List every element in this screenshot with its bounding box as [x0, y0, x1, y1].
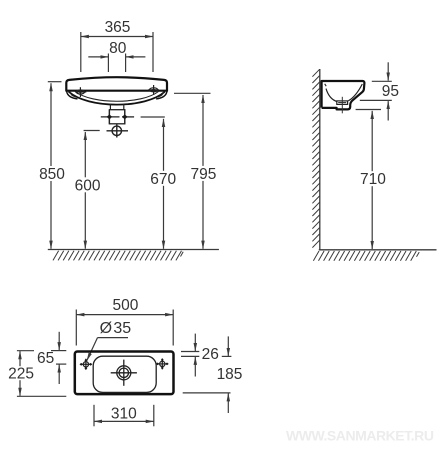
washbasin side bowl back curve [326, 89, 337, 102]
floor line front view [48, 249, 219, 251]
extension dash 65 bottom [56, 363, 66, 365]
svg-text:795: 795 [190, 166, 216, 183]
svg-text:500: 500 [112, 297, 138, 314]
mounting hole cross right [122, 110, 134, 124]
extension dash 185 bottom [183, 392, 231, 394]
dimension text 795 [189, 166, 217, 181]
dimension text 850 [38, 166, 66, 181]
dimension line 710 [371, 111, 373, 249]
svg-text:95: 95 [382, 83, 399, 100]
extension dash 670 [141, 116, 165, 118]
extension line 80 right [125, 54, 127, 73]
tap hole symbol front right [148, 85, 159, 95]
mounting plate front view [109, 110, 124, 124]
tap hole symbol front left [75, 87, 86, 97]
dimension arrow 26 bottom [194, 357, 196, 377]
dimension arrow 185 bottom [227, 393, 229, 413]
drain flange side view [337, 101, 348, 105]
washbasin side bowl front curve [348, 84, 362, 101]
drain symbol plan view [111, 360, 137, 386]
dimension arrow 95 top [387, 62, 389, 80]
dimension text 710 [359, 171, 387, 186]
svg-text:80: 80 [109, 40, 127, 57]
dimension line 310 [94, 420, 154, 422]
extension dash 26 top [181, 351, 199, 353]
tap hole plan view right [157, 359, 168, 370]
washbasin front bowl outer curve [69, 92, 166, 105]
extension line 225 bottom [17, 395, 66, 397]
svg-text:710: 710 [360, 171, 386, 188]
svg-text:185: 185 [217, 366, 243, 383]
svg-text:WWW.SANMARKET.RU: WWW.SANMARKET.RU [286, 427, 434, 443]
svg-text:850: 850 [39, 166, 65, 183]
dimension arrow 26 top [194, 334, 196, 352]
dimension text 600 [74, 177, 102, 192]
dimension arrow 65 top [58, 332, 60, 350]
mounting hole cross left [101, 110, 120, 124]
dimension line 365 [81, 36, 153, 38]
washbasin front left ear [67, 91, 78, 99]
extension dash 185 top [222, 355, 232, 357]
extension dash 850 [48, 81, 62, 83]
drain outlet symbol front view [107, 124, 129, 137]
extension line 80 left [107, 54, 109, 73]
extension line 310 right [153, 405, 155, 427]
drain centerline side view [341, 97, 343, 114]
dimension arrow 80 left [88, 56, 108, 58]
wall line side view [319, 69, 321, 250]
washbasin side view outline [322, 81, 365, 109]
dimension line 850 [50, 83, 52, 249]
extension dash 600 [84, 130, 100, 132]
drain pipe front view [109, 104, 111, 110]
svg-text:600: 600 [75, 177, 101, 194]
side view back rim tick [325, 84, 327, 86]
wall hatching side view [312, 69, 319, 247]
washbasin front right ear [156, 91, 167, 99]
leader shoulder diameter 35 [98, 337, 129, 339]
svg-text:365: 365 [105, 19, 131, 36]
svg-text:Ø35: Ø35 [100, 320, 132, 337]
dimension line 500 [76, 314, 173, 316]
dimension text 670 [149, 171, 177, 186]
dimension text 225 [8, 366, 34, 380]
floor hatching front view [53, 251, 183, 261]
extension line 500 left [75, 310, 77, 346]
extension dash 795 [174, 92, 211, 94]
extension dash 65 top [51, 350, 66, 352]
svg-text:65: 65 [37, 350, 54, 367]
svg-text:26: 26 [202, 346, 219, 363]
extension dash 95 bottom [360, 99, 392, 101]
washbasin front bowl inner curve [75, 92, 159, 102]
svg-text:225: 225 [8, 366, 34, 383]
floor hatching side view [313, 251, 419, 261]
leader line diameter 35 [87, 338, 98, 361]
dimension line 600 [84, 132, 86, 249]
svg-text:310: 310 [111, 406, 137, 423]
extension dash 26 bottom [181, 355, 199, 357]
dimension line 225 [19, 351, 21, 396]
extension line 365 right [152, 32, 154, 72]
extension dash 95 top [372, 80, 392, 82]
svg-text:670: 670 [150, 171, 176, 188]
washbasin plan view outer rim [75, 352, 174, 395]
tap hole plan view left [81, 359, 92, 370]
washbasin plan view inner basin [93, 356, 156, 392]
dimension arrow 95 bottom [387, 101, 389, 120]
floor line side view [319, 249, 437, 251]
dimension arrow 65 bottom [58, 365, 60, 385]
dimension arrow 80 right [126, 56, 146, 58]
extension dash 710 [356, 109, 381, 111]
extension line 310 left [93, 405, 95, 427]
dimension arrow 185 top [227, 336, 229, 356]
dimension line 795 [202, 95, 204, 249]
extension line 500 right [172, 310, 174, 346]
washbasin front view deck outline [66, 77, 167, 91]
dimension line 670 [163, 119, 165, 249]
extension line 365 left [80, 32, 82, 72]
extension dash 225 top [17, 350, 34, 352]
